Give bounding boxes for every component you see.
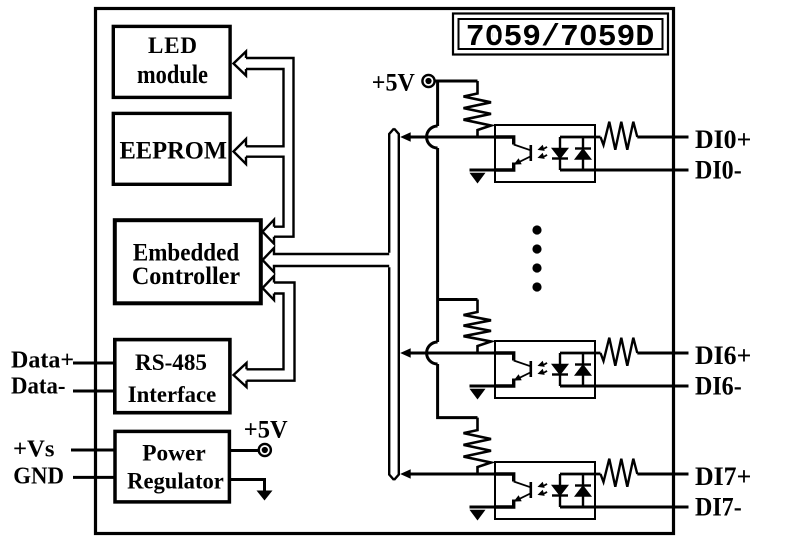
optocoupler U6 (DI6) <box>495 341 595 398</box>
phototransistor (inside U6) <box>495 353 514 361</box>
wire + terminal DI7+ <box>637 473 688 476</box>
back-to-back LED diode pair (inside U7) <box>559 474 561 507</box>
data bus (hollow) <box>389 129 399 481</box>
wire: emitter of U0 to internal circuit (down arrow) <box>470 169 496 172</box>
resistor (pull-up, channel DI0) <box>464 81 492 137</box>
svg-text:+5V: +5V <box>244 417 288 444</box>
resistor (input series, channel DI0) <box>601 122 638 150</box>
wire + terminal DI0- <box>560 169 689 172</box>
resistor (pull-up, channel DI7) <box>464 418 492 474</box>
ellipsis dots (channels 1..5) <box>532 225 541 234</box>
svg-text:DI7-: DI7- <box>695 492 742 521</box>
wire + terminal DI6- <box>560 385 689 388</box>
wire: diode rails to pins of U7 <box>560 473 601 476</box>
wire: optocoupler DI6 output to bus, with arrow into bus <box>406 352 495 355</box>
block arrow tube: Embedded Controller to RS-485 Interface <box>247 283 295 381</box>
arrowhead into Embedded Controller (from LED/EEPROM tube) <box>263 220 275 244</box>
back-to-back LED diode pair (inside U0) <box>559 137 561 170</box>
wire: +5V dot to channel 0 resistor <box>435 80 478 83</box>
arrowhead into EEPROM <box>234 139 247 164</box>
svg-text:RS-485: RS-485 <box>135 350 207 376</box>
block LED module <box>113 26 230 97</box>
wire: diode rails to pins of U0 <box>560 136 601 139</box>
resistor (pull-up, channel DI6) <box>464 300 492 354</box>
wire: emitter of U6 to internal circuit (down arrow) <box>470 385 496 388</box>
svg-text:Controller: Controller <box>132 263 240 290</box>
phototransistor (inside U0) <box>495 137 514 145</box>
LED light arrows (inside U0) <box>540 147 548 149</box>
resistor (input series, channel DI6) <box>601 338 638 366</box>
optocoupler U0 (DI0) <box>495 125 595 182</box>
block arrow: bus to Embedded Controller <box>263 248 390 272</box>
svg-text:DI6-: DI6- <box>695 371 742 400</box>
svg-text:Interface: Interface <box>128 382 217 407</box>
arrowhead into RS-485 Interface <box>234 363 247 387</box>
svg-text:+5V: +5V <box>372 70 415 97</box>
svg-text:Data-: Data- <box>11 373 66 399</box>
wire + terminal DI6+ <box>637 352 688 355</box>
svg-text:Regulator: Regulator <box>127 468 224 493</box>
block arrow tube: Embedded Controller to LED module and EEPROM <box>246 58 294 237</box>
svg-text:module: module <box>137 60 208 89</box>
LED light arrows (inside U6) <box>540 363 548 365</box>
optocoupler U7 (DI7) <box>495 462 595 519</box>
tee: rail branch to channel 6 resistor <box>438 298 478 301</box>
block Power Regulator <box>115 431 229 502</box>
ground arrow of power regulator <box>231 480 265 492</box>
LED light arrows (inside U7) <box>540 484 548 486</box>
svg-text:EEPROM: EEPROM <box>119 138 227 165</box>
phototransistor (inside U7) <box>495 474 514 482</box>
resistor (input series, channel DI7) <box>601 459 638 487</box>
svg-text:+Vs: +Vs <box>13 436 54 462</box>
svg-text:DI0-: DI0- <box>695 155 742 184</box>
block Embedded Controller <box>115 220 261 303</box>
back-to-back LED diode pair (inside U6) <box>559 353 561 386</box>
crossover hop over channel DI0 line <box>427 126 438 148</box>
arrowhead into LED module <box>234 52 247 76</box>
svg-text:LED: LED <box>148 33 197 58</box>
wire: diode rails to pins of U6 <box>560 352 601 355</box>
block RS-485 Interface <box>115 340 230 413</box>
title box 7059/7059D <box>453 14 668 55</box>
wire: emitter of U7 to internal circuit (down arrow) <box>470 506 496 509</box>
+5V rail down with crossover hops <box>438 81 478 418</box>
svg-text:GND: GND <box>13 463 64 489</box>
svg-text:DI6+: DI6+ <box>695 341 751 370</box>
wire + terminal DI7- <box>560 506 689 509</box>
svg-text:DI7+: DI7+ <box>695 462 751 491</box>
outer border <box>96 9 674 534</box>
svg-text:DI0+: DI0+ <box>695 125 751 154</box>
block EEPROM <box>113 113 230 184</box>
svg-text:Power: Power <box>142 440 206 466</box>
arrowhead into Embedded Controller (from RS-485 tube) <box>263 276 275 300</box>
svg-text:Data+: Data+ <box>11 347 74 373</box>
wire: optocoupler DI7 output to bus, with arrow into bus <box>406 473 495 476</box>
crossover hop over channel DI6 line <box>427 342 438 364</box>
wire: optocoupler DI0 output to bus, with arrow into bus <box>406 136 495 139</box>
wire + terminal DI0+ <box>637 136 688 139</box>
